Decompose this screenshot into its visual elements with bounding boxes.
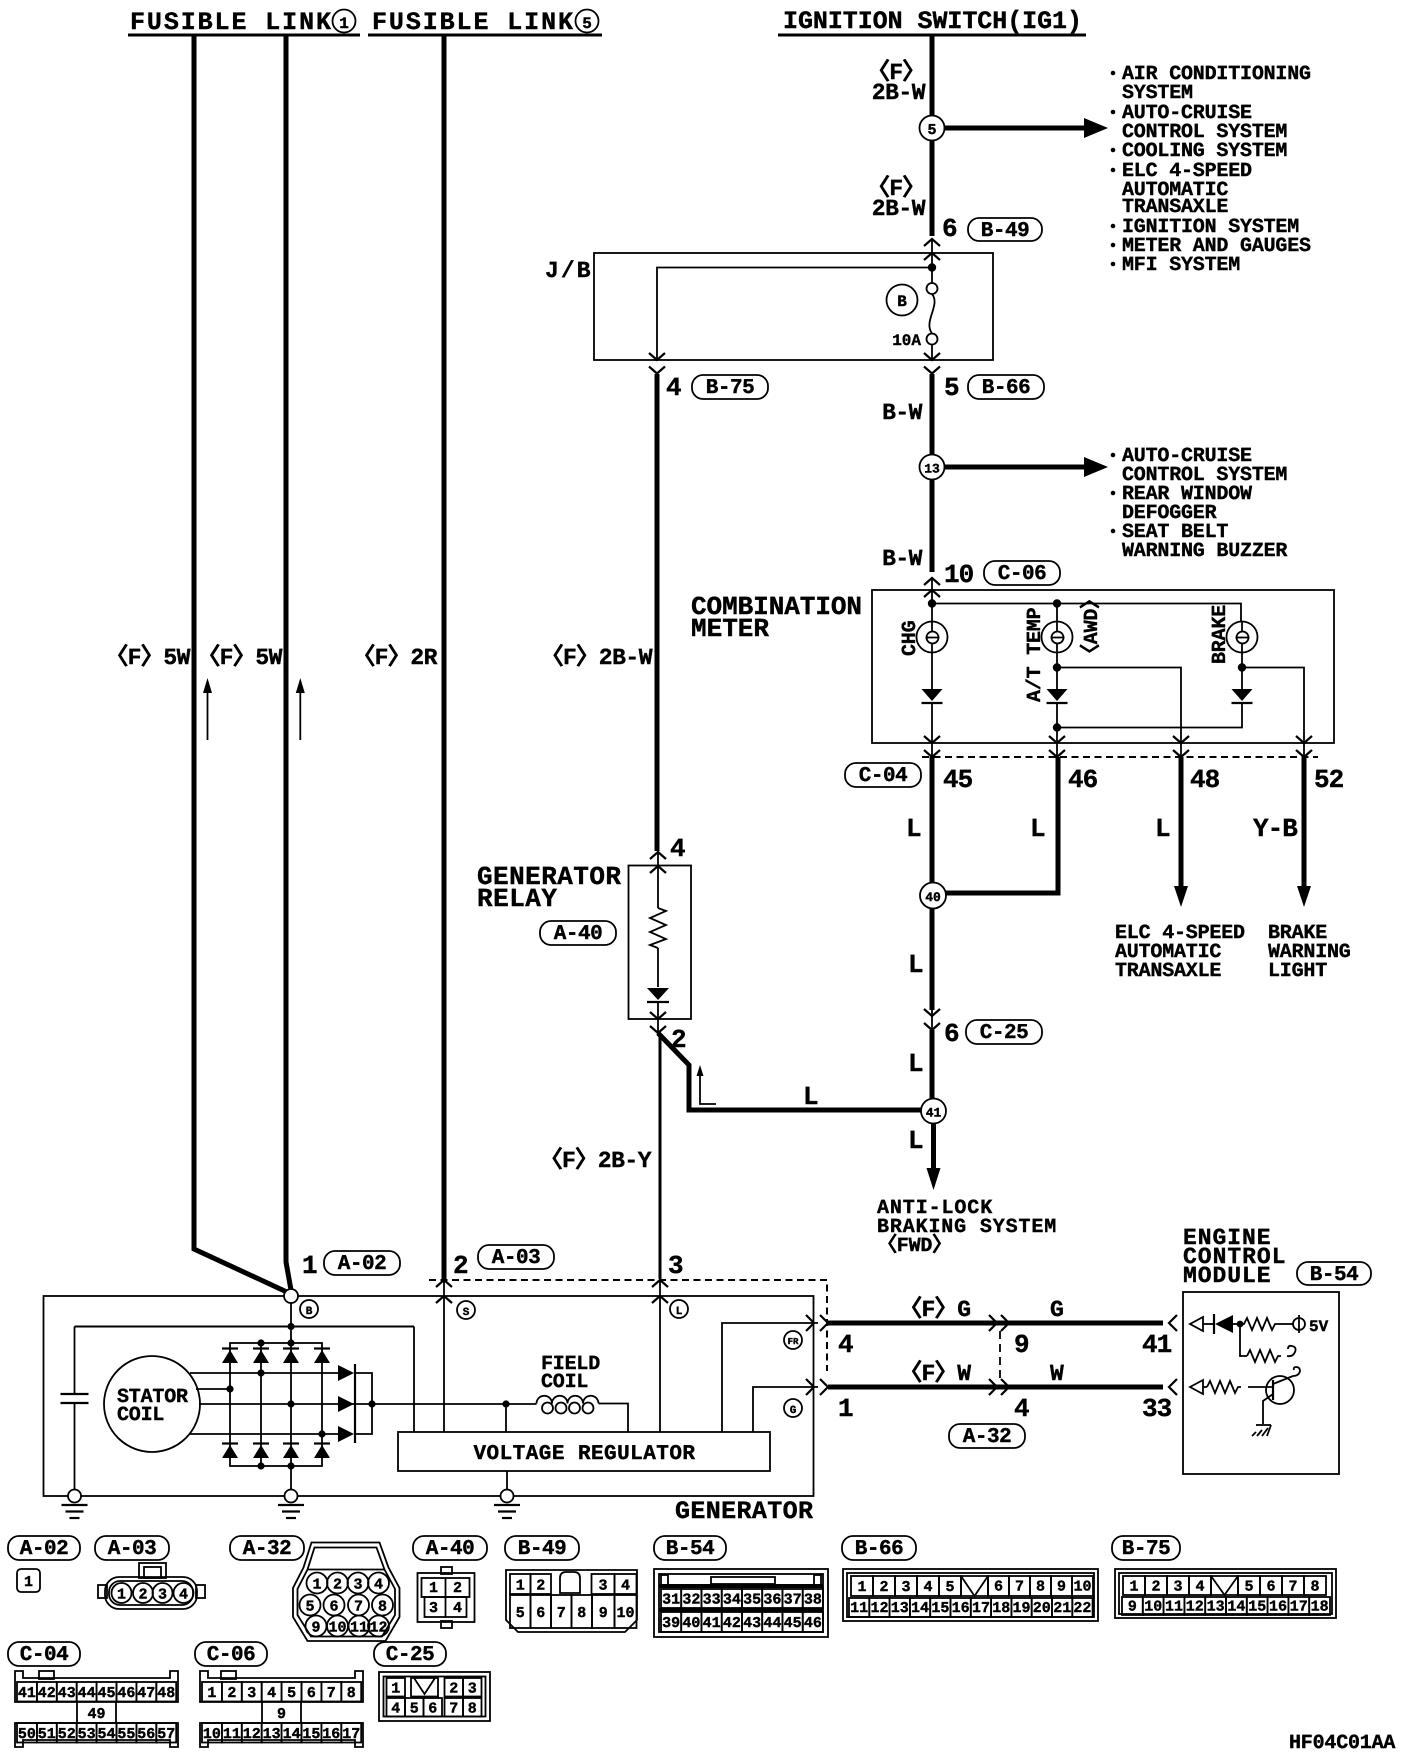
dashed connector A-32 divider [999,1331,1001,1378]
connector label A-40 [540,921,616,946]
svg-text:MFI SYSTEM: MFI SYSTEM [1122,254,1240,277]
svg-text:10A: 10A [892,332,921,350]
chevrons relay entry [650,852,666,859]
svg-text:5: 5 [516,1605,525,1622]
svg-text:MODULE: MODULE [1183,1263,1270,1289]
ECM pull-down resistor [1240,1324,1247,1356]
svg-text:〈F〉2R: 〈F〉2R [352,644,438,671]
svg-text:11: 11 [850,1600,868,1617]
svg-text:B-75: B-75 [706,377,754,400]
connector A-02 label [8,1536,80,1561]
svg-text:4: 4 [453,1600,462,1617]
fuse B 10A [927,283,938,294]
svg-text:55: 55 [117,1726,135,1743]
svg-text:4: 4 [1014,1394,1029,1424]
svg-text:12: 12 [243,1726,261,1743]
generator box [44,1296,814,1496]
connector label C-25 [966,1020,1042,1045]
bullet list splice 13 systems [1111,445,1288,563]
svg-text:22: 22 [1073,1600,1091,1617]
svg-text:METER: METER [691,614,769,644]
svg-text:8: 8 [468,1700,477,1717]
svg-text:A/T TEMP: A/T TEMP [1024,607,1047,702]
svg-text:1: 1 [312,1577,321,1594]
connector A-02 pinout [17,1569,40,1592]
svg-text:57: 57 [157,1726,175,1743]
svg-text:6: 6 [536,1605,545,1622]
svg-text:S: S [463,1307,470,1319]
svg-text:2: 2 [1151,1579,1160,1596]
svg-text:45: 45 [784,1615,802,1632]
svg-text:3: 3 [668,1251,683,1281]
svg-text:32: 32 [682,1592,700,1609]
meter exit chevrons 52 [1296,736,1312,743]
relay resistor [650,908,666,948]
connector A-03 pinout [139,1563,166,1578]
connector label B-75 [692,375,768,400]
wire L 46 [946,757,1058,893]
svg-text:12: 12 [369,1620,387,1637]
svg-text:B: B [897,293,907,311]
svg-text:6: 6 [1266,1579,1275,1596]
svg-text:G: G [1050,1297,1063,1323]
svg-text:10: 10 [616,1605,634,1622]
svg-text:2: 2 [138,1587,147,1604]
ELC 4-SPEED AUTOMATIC TRANSAXLE text [1115,922,1245,983]
svg-text:41: 41 [926,1106,942,1121]
svg-text:J/B: J/B [545,258,591,284]
wire (F)G to ECM [828,1321,1163,1326]
ECM base resistor [1203,1386,1207,1388]
header FUSIBLE LINK 1 [128,8,360,37]
wire B-W J/B pin5 down [930,374,935,455]
svg-text:COIL: COIL [117,1404,164,1427]
svg-text:10: 10 [1144,1599,1162,1616]
svg-text:11: 11 [223,1726,241,1743]
svg-text:44: 44 [78,1685,96,1702]
ECM transistor [1266,1376,1294,1404]
connector B-54 pinout [654,1569,828,1637]
svg-text:33: 33 [1142,1394,1172,1424]
chevrons C-25 crossing [924,1009,940,1016]
svg-text:〈F〉G: 〈F〉G [899,1296,971,1323]
svg-text:8: 8 [577,1605,586,1622]
inner rail from node B [75,1326,415,1328]
svg-text:16: 16 [1269,1599,1287,1616]
J/B box [594,253,993,360]
connector A-03 label [95,1536,169,1561]
connector A-32 label [230,1536,304,1561]
wire Y-B 52 with arrow [1302,757,1307,886]
connector A-40 pinout [441,1567,452,1574]
stator coil circle [104,1356,200,1452]
FR terminal wire [722,1323,818,1432]
splice 13 [920,455,945,480]
svg-text:L: L [908,950,923,980]
svg-text:A-03: A-03 [492,1247,540,1270]
svg-text:40: 40 [925,890,941,905]
ground generator left [68,1490,81,1503]
svg-text:9: 9 [277,1706,286,1723]
svg-text:39: 39 [662,1615,680,1632]
ECM input triangle top [1190,1317,1203,1331]
svg-text:10: 10 [328,1620,346,1637]
svg-text:42: 42 [723,1615,741,1632]
connector label B-66 [968,375,1044,400]
connector label B-49 [968,218,1042,243]
BRAKE WARNING LIGHT text [1268,922,1351,983]
wire J/B inner rail [657,268,932,361]
CHG lamp [931,604,933,622]
output diodes right [338,1365,354,1381]
svg-text:11: 11 [1165,1599,1183,1616]
ECM diode [1213,1314,1215,1334]
arrow up on wire 2 [296,678,305,740]
svg-text:11: 11 [350,1620,368,1637]
svg-text:7: 7 [449,1700,458,1717]
G terminal wire [753,1387,818,1432]
BRAKE branch to 52 [1241,653,1243,690]
svg-text:16: 16 [322,1726,340,1743]
svg-text:52: 52 [58,1726,76,1743]
bridge junction dots [257,1339,264,1346]
svg-text:17: 17 [972,1600,990,1617]
svg-text:1: 1 [857,1579,866,1596]
dashed generator boundary [429,1280,827,1371]
svg-text:B-49: B-49 [518,1538,566,1561]
svg-text:5: 5 [1244,1579,1253,1596]
svg-text:6: 6 [942,214,957,244]
svg-text:〈F〉5W: 〈F〉5W [105,644,191,671]
svg-text:20: 20 [1033,1600,1051,1617]
svg-text:FUSIBLE LINK: FUSIBLE LINK [130,8,331,37]
wire B-W below splice 13 [930,480,935,573]
svg-text:49: 49 [87,1706,105,1723]
svg-text:6: 6 [994,1579,1003,1596]
bridge bottom diodes [222,1444,330,1459]
svg-text:C-04: C-04 [859,765,907,788]
wire L horizontal from relay to splice 41 [658,1033,921,1110]
svg-text:A-32: A-32 [963,1426,1011,1449]
svg-text:L: L [803,1082,818,1112]
svg-text:2: 2 [671,1025,686,1055]
connector C-06 label [195,1642,267,1667]
wire L to ABS arrow [931,1124,936,1169]
svg-text:13: 13 [263,1726,281,1743]
splice 5 [920,116,945,141]
svg-text:14: 14 [283,1726,301,1743]
svg-text:FR: FR [788,1337,799,1347]
ground generator center [285,1490,298,1503]
svg-text:8: 8 [378,1599,387,1616]
svg-text:VOLTAGE REGULATOR: VOLTAGE REGULATOR [474,1443,696,1466]
connector B-75 label [1112,1536,1180,1561]
svg-text:A-02: A-02 [338,1253,386,1276]
svg-text:1: 1 [207,1685,216,1702]
chevrons B-49 crossing [924,239,940,246]
svg-text:TRANSAXLE: TRANSAXLE [1115,960,1221,983]
svg-text:42: 42 [38,1685,56,1702]
svg-text:4: 4 [670,834,685,864]
svg-text:5: 5 [582,15,592,33]
svg-text:RELAY: RELAY [477,884,557,914]
svg-text:44: 44 [763,1615,781,1632]
connector C-25 label [374,1642,446,1667]
svg-text:〈F〉W: 〈F〉W [899,1360,971,1387]
svg-text:〈F〉2B-W: 〈F〉2B-W [540,644,652,671]
svg-text:A-03: A-03 [108,1538,156,1561]
connector B-49 pinout [506,1570,637,1632]
svg-text:B-49: B-49 [981,220,1029,243]
wire fusible link 1 left (F)5W [194,36,289,1293]
svg-text:L: L [676,1306,683,1318]
svg-text:1: 1 [24,1574,33,1591]
svg-text:1: 1 [1129,1579,1138,1596]
svg-text:8: 8 [1036,1579,1045,1596]
wire ignition below splice 5 [930,141,935,237]
voltage regulator box [398,1432,770,1471]
svg-text:36: 36 [763,1592,781,1609]
ECM box [1183,1292,1339,1474]
svg-text:W: W [1050,1361,1064,1387]
svg-text:L: L [906,814,921,844]
wire L below splice 40 [930,909,935,1011]
svg-text:10: 10 [203,1726,221,1743]
ECM resistor to 5V [1240,1318,1279,1330]
svg-text:4: 4 [666,373,681,403]
svg-text:B-66: B-66 [855,1538,903,1561]
svg-text:4: 4 [923,1579,932,1596]
bridge top diodes [222,1349,330,1364]
field coil junction dot [502,1400,509,1407]
svg-text:B-66: B-66 [982,377,1030,400]
meter exit chevrons 45 [924,736,940,743]
svg-text:FUSIBLE LINK: FUSIBLE LINK [372,8,573,37]
svg-text:6: 6 [329,1599,338,1616]
svg-text:A-40: A-40 [554,923,602,946]
svg-text:7: 7 [327,1685,336,1702]
svg-text:4: 4 [391,1700,400,1717]
svg-text:46: 46 [804,1615,822,1632]
svg-text:B-54: B-54 [666,1538,714,1561]
svg-text:21: 21 [1053,1600,1071,1617]
chevrons relay exit [650,1012,666,1019]
svg-text:2: 2 [333,1577,342,1594]
svg-text:8: 8 [347,1685,356,1702]
svg-text:L: L [908,1126,923,1156]
ANTI-LOCK BRAKING SYSTEM text [877,1197,1056,1258]
circled letter S [457,1301,475,1319]
branch arrow from splice 5 [945,126,1085,131]
wire (F)W to ECM [828,1385,1163,1390]
svg-text:C-25: C-25 [386,1644,434,1667]
connector label A-32 [949,1424,1025,1449]
stator phase line 3 output [199,1403,537,1405]
svg-text:5: 5 [287,1685,296,1702]
svg-text:48: 48 [1190,765,1220,795]
svg-text:2: 2 [453,1580,462,1597]
svg-text:14: 14 [1227,1599,1245,1616]
svg-text:L: L [908,1049,923,1079]
svg-text:9: 9 [1128,1599,1137,1616]
svg-text:38: 38 [804,1592,822,1609]
svg-text:3: 3 [158,1587,167,1604]
circled letter B [300,1300,318,1318]
BRAKE diode [1232,689,1253,701]
svg-text:41: 41 [703,1615,721,1632]
svg-text:17: 17 [1290,1599,1308,1616]
svg-text:7: 7 [354,1599,363,1616]
connector B-49 label [505,1536,579,1561]
connector label C-04 [845,763,921,788]
svg-text:2: 2 [536,1577,545,1594]
svg-text:BRAKE: BRAKE [1209,605,1232,664]
svg-text:9: 9 [311,1620,320,1637]
svg-text:5: 5 [305,1599,314,1616]
svg-text:〈AWD〉: 〈AWD〉 [1079,589,1104,664]
connector label A-03 [478,1245,554,1270]
svg-text:HF04C01AA: HF04C01AA [1289,1732,1395,1755]
splice 41 [921,1099,946,1124]
A/T diode bottom tie to BRAKE diode [1053,723,1061,731]
svg-text:1: 1 [302,1251,317,1281]
svg-text:16: 16 [952,1600,970,1617]
svg-text:6: 6 [428,1700,437,1717]
connector label C-06 [984,561,1060,586]
CHG diode [931,653,933,690]
svg-text:10: 10 [944,560,974,590]
stator phase line 4 [190,1433,338,1435]
svg-text:B: B [306,1306,313,1318]
ECM input triangle bottom [1190,1380,1203,1394]
svg-text:1: 1 [117,1587,126,1604]
arrow up on wire 1 [203,678,212,740]
svg-text:5V: 5V [1309,1318,1329,1336]
svg-text:〈FWD〉: 〈FWD〉 [877,1233,952,1258]
node terminal B [284,1289,298,1303]
header IGNITION SWITCH(IG1) [778,7,1086,36]
svg-text:LIGHT: LIGHT [1268,960,1327,983]
svg-text:B-75: B-75 [1122,1538,1170,1561]
svg-text:12: 12 [870,1600,888,1617]
dashed connector line C-04 [922,756,1318,758]
chevrons generator entry S [436,1280,452,1287]
svg-text:4: 4 [267,1685,276,1702]
connector C-04 pinout [39,1671,54,1679]
svg-text:L: L [1155,814,1170,844]
bullet list ignition systems [1111,63,1311,277]
splice 40 [920,883,946,909]
svg-text:15: 15 [931,1600,949,1617]
svg-text:13: 13 [1207,1599,1225,1616]
capacitor [74,1327,76,1395]
svg-text:3: 3 [247,1685,256,1702]
branch arrow from splice 13 [945,465,1085,470]
svg-text:4: 4 [621,1577,630,1594]
A/T TEMP diode [1047,689,1068,701]
svg-text:2: 2 [227,1685,236,1702]
svg-text:7: 7 [1015,1579,1024,1596]
generator relay box [629,866,692,1020]
wire L 48 with arrow [1179,757,1184,886]
svg-text:13: 13 [891,1600,909,1617]
stator phase line 1 [190,1372,338,1374]
svg-text:A-40: A-40 [426,1538,474,1561]
wire bridge center to ground [290,1466,292,1490]
svg-text:C-06: C-06 [998,563,1046,586]
svg-text:4: 4 [838,1330,853,1360]
svg-text:4: 4 [1195,1579,1204,1596]
collector line [355,1373,372,1434]
svg-text:L: L [1030,814,1045,844]
connector B-54 label [654,1536,726,1561]
svg-text:A-32: A-32 [243,1538,291,1561]
svg-text:33: 33 [703,1592,721,1609]
svg-text:35: 35 [743,1592,761,1609]
svg-text:2B-W: 2B-W [872,80,926,106]
svg-text:19: 19 [1012,1600,1030,1617]
svg-text:56: 56 [137,1726,155,1743]
svg-text:2B-W: 2B-W [872,196,926,222]
svg-text:Y-B: Y-B [1253,814,1298,844]
svg-text:CHG: CHG [899,620,922,656]
svg-text:C-25: C-25 [980,1022,1028,1045]
svg-text:7: 7 [557,1605,566,1622]
svg-text:15: 15 [302,1726,320,1743]
svg-text:〈F〉2B-Y: 〈F〉2B-Y [539,1147,651,1174]
svg-text:9: 9 [1057,1579,1066,1596]
connector C-25 pinout [379,1672,490,1721]
svg-text:B-54: B-54 [1310,1264,1358,1287]
svg-text:46: 46 [1068,765,1098,795]
svg-text:43: 43 [743,1615,761,1632]
wire (F)2B-W J/B pin4 down to generator relay [655,374,660,851]
svg-text:6: 6 [944,1019,959,1049]
svg-text:18: 18 [992,1600,1010,1617]
svg-text:B-W: B-W [882,400,923,426]
svg-text:41: 41 [18,1685,36,1702]
svg-text:47: 47 [137,1685,155,1702]
svg-text:1: 1 [391,1680,400,1697]
svg-text:46: 46 [117,1685,135,1702]
rectifier bridge box [230,1343,322,1466]
connector B-66 label [842,1536,916,1561]
svg-text:3: 3 [353,1577,362,1594]
A/T TEMP branch to 48 [1056,653,1058,690]
svg-text:4: 4 [179,1587,188,1604]
svg-text:18: 18 [1311,1599,1329,1616]
wire fusible link 5 (F)2R [442,36,447,1279]
connector label A-02 [324,1251,400,1276]
meter exit chevrons 48 [1173,736,1189,743]
wire L between C-25 and splice 41 [930,1030,935,1099]
svg-text:2: 2 [453,1251,468,1281]
connector label B-54 [1297,1262,1371,1287]
svg-text:G: G [790,1405,797,1417]
svg-text:10: 10 [1073,1579,1091,1596]
svg-text:WARNING BUZZER: WARNING BUZZER [1122,540,1287,563]
combination meter box [872,590,1334,743]
svg-text:45: 45 [97,1685,115,1702]
meter exit chevrons 46 [1049,736,1065,743]
svg-text:13: 13 [924,462,940,477]
svg-text:37: 37 [784,1592,802,1609]
svg-text:3: 3 [429,1600,438,1617]
svg-text:54: 54 [97,1726,115,1743]
svg-text:45: 45 [943,765,973,795]
svg-text:5: 5 [927,122,936,139]
svg-text:2: 2 [449,1680,458,1697]
